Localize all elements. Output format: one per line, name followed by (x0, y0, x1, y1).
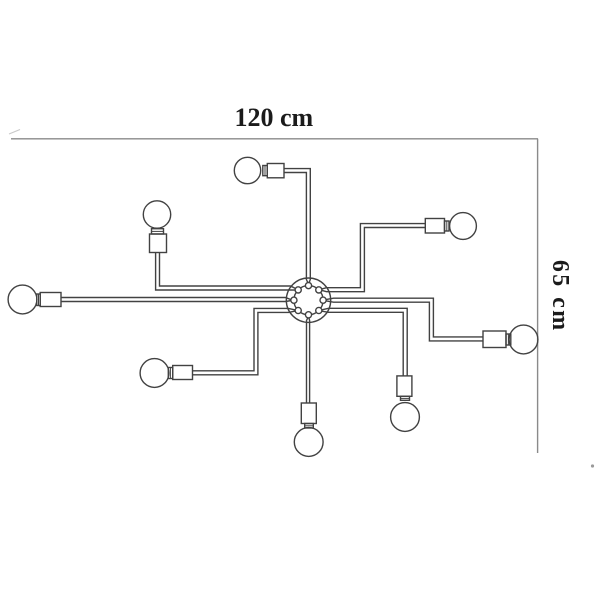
wire NW arm (upper-left bulb to hub) (156, 253, 297, 291)
socket neck 2 (152, 229, 164, 234)
svg-text:120 cm: 120 cm (234, 103, 313, 132)
bulb 6 lower-left (140, 359, 169, 388)
stray dot bottom-right (591, 464, 594, 467)
wire SE arm (hub to lower-right bulb) (321, 308, 407, 376)
bulb 1 top-center (234, 157, 260, 183)
socket body 1 (267, 164, 284, 178)
hub port NE (316, 287, 322, 293)
wire N arm (top-center bulb to hub) (284, 169, 310, 285)
bulb 8 lower-right (391, 403, 420, 432)
socket neck 8 (401, 396, 410, 400)
dimension line top (width) (11, 138, 538, 140)
bulb 4 upper-right (450, 213, 477, 240)
dimension line right (height) (537, 139, 539, 453)
hub port E (320, 297, 326, 303)
hub port N (305, 283, 311, 289)
hub port NW (295, 287, 301, 293)
wire E arm (hub to far-right bulb) (326, 298, 483, 341)
bulb 2 upper-left (143, 201, 170, 228)
hub port SW (295, 307, 301, 313)
socket neck 1 (263, 166, 268, 176)
socket body 5 (483, 331, 506, 348)
wire W arm (far-left bulb to hub) (61, 298, 292, 302)
svg-text:65 cm: 65 cm (547, 260, 573, 333)
socket body 8 (397, 376, 412, 396)
wire S arm (hub to bottom-center bulb) (307, 316, 310, 403)
hub port W (291, 297, 297, 303)
socket neck 4 (445, 221, 450, 231)
hub port SE (316, 307, 322, 313)
socket body 3 (40, 293, 61, 307)
socket neck 5 (506, 334, 511, 345)
neck threads (39, 166, 509, 426)
dimension tick top-left (9, 130, 20, 135)
wire NE arm (upper-right bulb to hub) (321, 224, 426, 292)
hub outer circle (286, 278, 330, 322)
socket neck 7 (305, 424, 314, 429)
socket neck 3 (37, 294, 40, 306)
hub port S (305, 312, 311, 318)
wire SW arm (hub to lower-left bulb) (193, 308, 296, 374)
bulb 3 far-left (8, 285, 37, 314)
socket neck 6 (168, 368, 172, 379)
bulb 7 bottom-center (294, 428, 323, 457)
socket body 7 (301, 403, 316, 424)
socket body 6 (173, 366, 193, 380)
socket body 4 (425, 219, 444, 234)
hub inner circle (294, 286, 323, 315)
socket body 2 (150, 234, 167, 253)
bulb 5 far-right (509, 325, 538, 354)
